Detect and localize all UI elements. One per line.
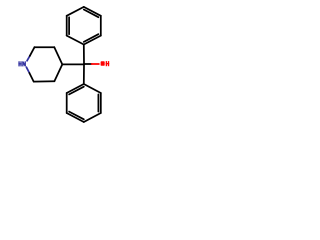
top phenyl edge UR-LR <box>100 16 102 36</box>
piperidine bond N-TL (blue half) <box>27 56 30 61</box>
bond C to piperidine <box>62 63 84 65</box>
bond C to top phenyl <box>83 45 85 65</box>
bottom phenyl double bond inner UR-LR <box>97 94 99 111</box>
atom label O (of OH, solid red blob) <box>101 61 105 66</box>
top phenyl double bond inner LL-UL <box>68 17 70 34</box>
top phenyl edge LL-UL <box>66 16 68 36</box>
piperidine bond N-TL (black half) <box>30 47 35 56</box>
atom label H (of OH) <box>106 61 107 66</box>
atom label HN: N glyph <box>22 61 23 66</box>
atom label HN: H glyph (piperidine nitrogen) <box>18 61 19 66</box>
bottom phenyl edge UR-LR <box>100 93 102 113</box>
top phenyl edge LR-B <box>84 36 101 45</box>
bond C-O (black half) <box>84 63 92 65</box>
bottom phenyl edge T-UR <box>84 84 101 93</box>
piperidine edge R-BR <box>54 64 62 81</box>
top phenyl edge B-LL <box>67 36 84 45</box>
molecule: alpha,alpha-diphenyl-4-piperidinemethanol structure <box>0 0 130 130</box>
bond C-O (red half) <box>92 63 99 65</box>
bottom phenyl edge UL-T <box>67 84 84 93</box>
piperidine edge TL-TR <box>35 46 55 48</box>
bottom phenyl edge B-LL <box>67 113 84 122</box>
piperidine bond N-BL (black half) <box>29 73 33 82</box>
background <box>0 0 130 130</box>
piperidine edge BR-BL <box>34 80 55 82</box>
top phenyl double bond inner T-UR <box>84 10 99 18</box>
bond C to bottom phenyl <box>83 64 85 84</box>
bottom phenyl edge LL-UL <box>66 93 68 113</box>
bottom phenyl edge LR-B <box>84 113 101 122</box>
top phenyl double bond inner LR-B <box>84 34 99 42</box>
bottom phenyl double bond inner UL-T <box>69 87 84 95</box>
bottom phenyl double bond inner B-LL <box>69 112 84 120</box>
top phenyl edge T-UR <box>84 7 101 16</box>
top phenyl edge UL-T <box>67 7 84 16</box>
piperidine bond N-BL (blue half) <box>26 67 29 73</box>
piperidine edge TR-R <box>54 47 62 64</box>
